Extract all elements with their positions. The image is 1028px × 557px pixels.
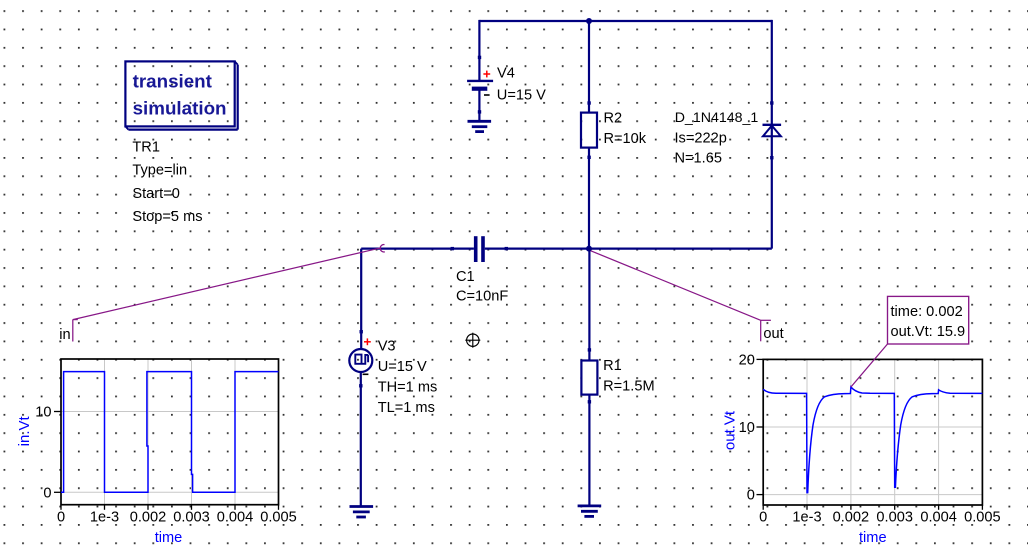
svg-text:0: 0 xyxy=(759,509,767,525)
node dot V4 bottom port xyxy=(478,110,481,113)
wire R1 top lead xyxy=(588,249,590,361)
svg-text:20: 20 xyxy=(739,352,755,368)
svg-text:0: 0 xyxy=(747,488,755,504)
node dot R2 top port xyxy=(587,101,590,104)
wire V4 bottom lead xyxy=(478,91,480,122)
ground below V4 xyxy=(468,121,492,131)
svg-text:Is=222p: Is=222p xyxy=(675,130,727,146)
node dot diode bottom port xyxy=(770,156,773,159)
svg-text:time: time xyxy=(859,530,887,546)
svg-text:out.Vt: 15.9: out.Vt: 15.9 xyxy=(891,324,966,340)
svg-text:0.005: 0.005 xyxy=(260,509,297,525)
node dot diode top port xyxy=(770,101,773,104)
simulation box transient simulation xyxy=(125,61,237,129)
voltage source V4 battery plates xyxy=(467,81,493,89)
junction node at x=589 y=248.6 xyxy=(586,246,592,252)
wire V3 bottom lead xyxy=(360,372,362,507)
node dot R2 bottom port xyxy=(587,156,590,159)
node label in: leader line xyxy=(73,248,381,320)
svg-text:10: 10 xyxy=(739,420,755,436)
svg-text:0.004: 0.004 xyxy=(920,509,957,525)
node dot C1 left port xyxy=(451,247,454,250)
svg-text:transient: transient xyxy=(133,70,213,91)
node dot V4 top port xyxy=(478,56,481,59)
node label out: leader line xyxy=(591,251,761,320)
svg-text:TH=1 ms: TH=1 ms xyxy=(378,380,438,396)
svg-text:0.002: 0.002 xyxy=(130,509,167,525)
svg-text:time: time xyxy=(155,530,183,546)
origin marker xyxy=(465,333,480,348)
svg-text:0.005: 0.005 xyxy=(964,509,1001,525)
wire V3 top lead xyxy=(360,249,362,350)
plus marker V3 xyxy=(364,338,371,345)
wire R2 bottom lead xyxy=(588,148,590,249)
right diagram axis ticks xyxy=(757,359,983,509)
svg-text:R1: R1 xyxy=(603,358,622,374)
wire top horizontal V4 to diode xyxy=(479,20,771,22)
svg-text:TR1: TR1 xyxy=(132,139,160,155)
ground below R1 xyxy=(578,506,602,517)
svg-text:R=10k: R=10k xyxy=(604,131,647,147)
node dot R1 bottom port xyxy=(588,400,591,403)
node label in: hook on wire xyxy=(380,245,385,252)
svg-text:R2: R2 xyxy=(604,111,623,127)
capacitor C1 plates xyxy=(474,236,485,262)
marker tooltip connector line xyxy=(851,344,888,387)
svg-text:0.004: 0.004 xyxy=(217,509,254,525)
wire bottom right horizontal diode to junction xyxy=(589,248,772,250)
left x tick labels xyxy=(57,509,297,525)
node dot R1 top port xyxy=(588,348,591,351)
svg-text:1e-3: 1e-3 xyxy=(792,509,821,525)
minus marker V3 xyxy=(363,373,369,375)
svg-text:0: 0 xyxy=(57,509,65,525)
node dot V3 top port xyxy=(360,330,363,333)
wire capacitor left lead xyxy=(361,248,474,250)
wire capacitor right lead xyxy=(485,248,589,250)
right x tick labels xyxy=(759,509,1001,525)
wire diode top lead xyxy=(771,20,773,136)
svg-text:1e-3: 1e-3 xyxy=(90,509,119,525)
svg-text:time: 0.002: time: 0.002 xyxy=(891,304,963,320)
svg-text:0: 0 xyxy=(43,485,51,501)
node dot V3 bottom port xyxy=(359,384,362,387)
svg-text:Start=0: Start=0 xyxy=(132,186,179,202)
diode D_1N4148_1 xyxy=(763,125,782,137)
svg-text:U=15 V: U=15 V xyxy=(378,359,427,375)
pulse source V3 xyxy=(349,349,372,372)
wire diode bottom lead xyxy=(771,136,773,248)
waveform out.Vt xyxy=(763,387,982,493)
svg-text:in.Vt: in.Vt xyxy=(16,415,33,446)
svg-text:out: out xyxy=(763,326,783,342)
svg-text:U=15 V: U=15 V xyxy=(497,87,546,103)
left diagram grid lines xyxy=(61,359,279,505)
resistor R2 xyxy=(581,113,597,148)
resistor R1 xyxy=(581,361,597,395)
svg-text:out.Vt: out.Vt xyxy=(721,410,738,450)
svg-text:0.003: 0.003 xyxy=(876,509,913,525)
svg-text:V3: V3 xyxy=(378,339,396,355)
ground below V3 xyxy=(350,507,374,518)
svg-text:10: 10 xyxy=(35,405,51,421)
node label out: tick xyxy=(761,320,771,341)
right diagram frame xyxy=(763,359,982,505)
svg-text:C=10nF: C=10nF xyxy=(456,288,508,304)
svg-text:N=1.65: N=1.65 xyxy=(675,151,722,167)
marker tooltip box xyxy=(888,296,969,344)
svg-text:simulation: simulation xyxy=(133,97,227,118)
junction node at top wire x=589 xyxy=(586,18,592,24)
wire R2 top lead xyxy=(588,21,590,113)
wire V4 top lead xyxy=(478,20,480,80)
minus marker V4 xyxy=(484,94,490,96)
svg-text:in: in xyxy=(59,327,70,343)
left diagram frame xyxy=(61,359,279,505)
svg-text:D_1N4148_1: D_1N4148_1 xyxy=(675,110,759,126)
wire R1 bottom lead xyxy=(588,395,590,506)
right diagram grid lines xyxy=(763,359,982,505)
svg-text:R=1.5M: R=1.5M xyxy=(603,379,655,395)
svg-text:Type=lin: Type=lin xyxy=(132,163,187,179)
svg-text:0.002: 0.002 xyxy=(833,509,870,525)
waveform in.Vt xyxy=(61,372,279,493)
node label in: tick xyxy=(73,320,78,342)
left diagram axis ticks xyxy=(54,412,279,510)
svg-text:0.003: 0.003 xyxy=(173,509,210,525)
plus marker V4 xyxy=(483,71,490,78)
svg-text:C1: C1 xyxy=(456,269,475,285)
svg-text:Stop=5 ms: Stop=5 ms xyxy=(132,209,202,225)
svg-text:TL=1 ms: TL=1 ms xyxy=(378,400,435,416)
svg-text:V4: V4 xyxy=(497,66,515,82)
node dot C1 right port xyxy=(505,247,508,250)
